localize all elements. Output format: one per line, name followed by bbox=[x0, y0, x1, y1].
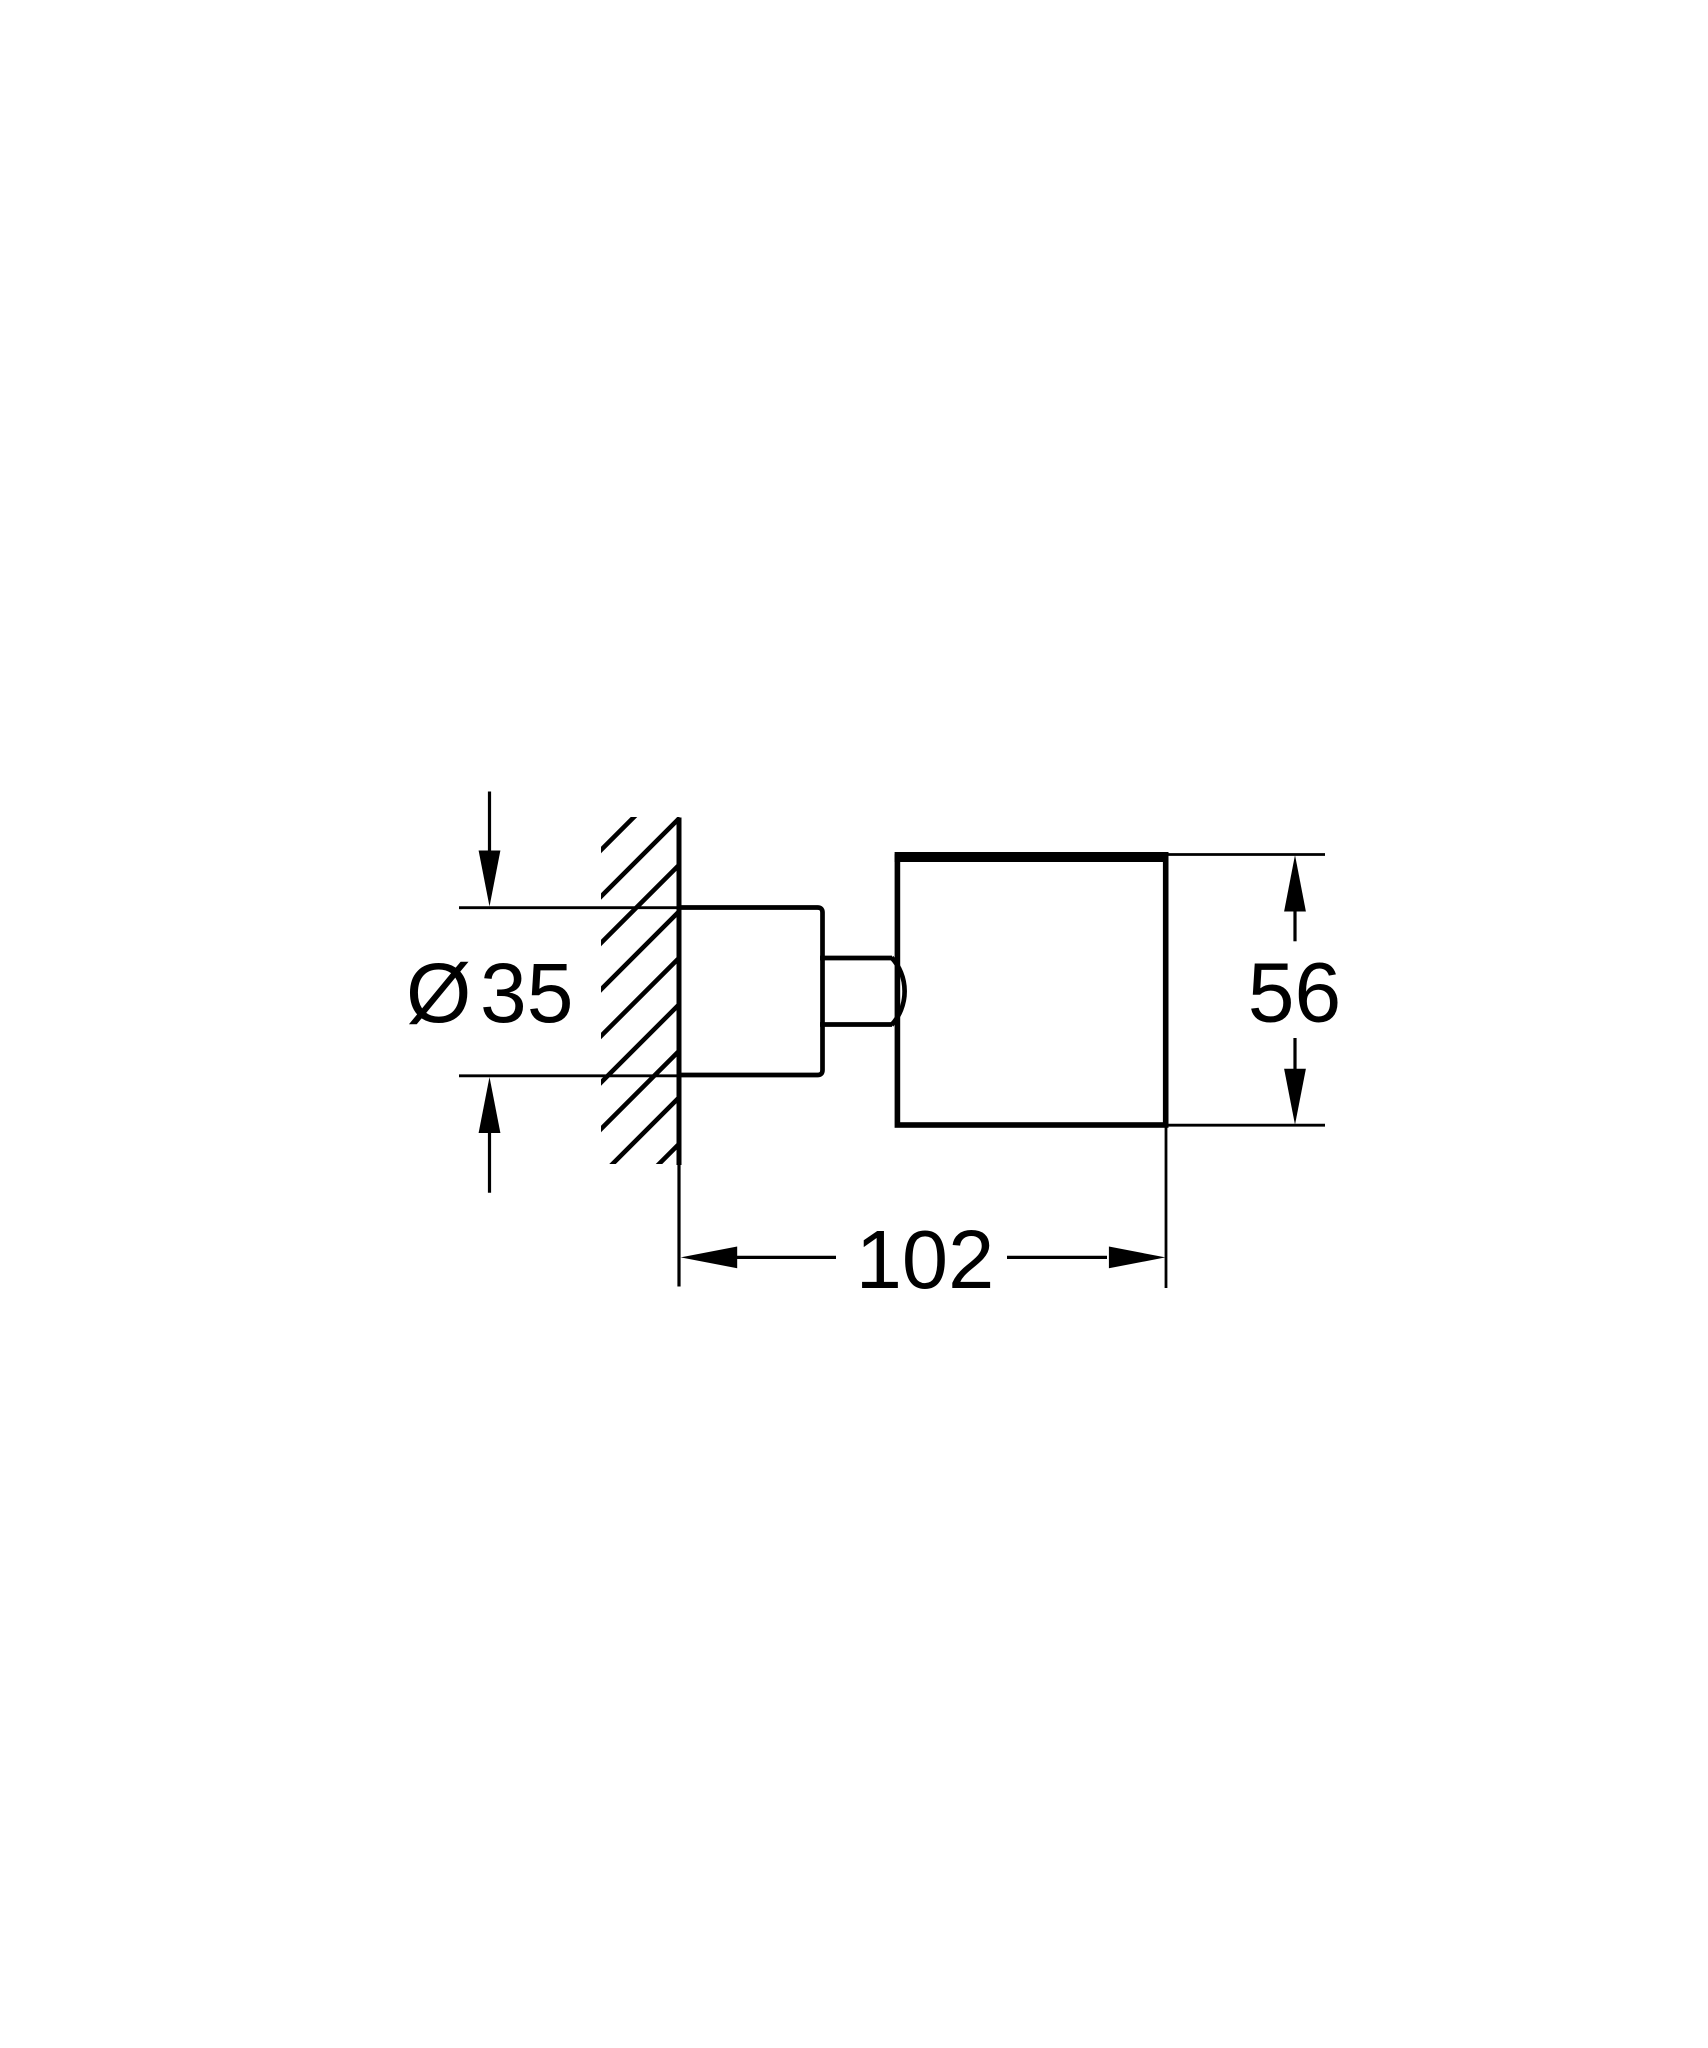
mount flange bbox=[679, 908, 823, 1076]
dimension Ø35 top extension line bbox=[459, 906, 682, 909]
svg-text:102: 102 bbox=[856, 1213, 994, 1306]
dimension Ø35 lower arrow (pointing up) bbox=[479, 1077, 501, 1193]
dimension 56 bottom extension line bbox=[1168, 1124, 1325, 1127]
dimension Ø35 bottom extension line bbox=[459, 1074, 682, 1077]
wall line bbox=[677, 818, 682, 1166]
cup holder body bbox=[897, 857, 1165, 1125]
svg-text:Ø: Ø bbox=[406, 946, 471, 1040]
neck bottom line bbox=[820, 1022, 892, 1027]
ball joint arc bbox=[892, 958, 905, 1026]
svg-text:56: 56 bbox=[1248, 946, 1341, 1040]
svg-text:35: 35 bbox=[480, 946, 573, 1040]
dimension 102 left arrow (pointing left) bbox=[681, 1247, 836, 1269]
dimension 56 top extension line bbox=[1168, 853, 1326, 856]
wall hatching bbox=[151, 700, 1123, 1300]
dimension Ø35 upper arrow (pointing down) bbox=[479, 792, 501, 907]
dimension 56 upper arrow (pointing up) bbox=[1284, 855, 1306, 941]
neck top line bbox=[820, 956, 892, 961]
dimension 102 left extension line bbox=[677, 1165, 680, 1287]
dimension 102 right extension line bbox=[1165, 1128, 1168, 1289]
dimension 102 right arrow (pointing right) bbox=[1007, 1247, 1165, 1269]
cup holder top rim (thick line) bbox=[895, 852, 1169, 862]
dimension 56 lower arrow (pointing down) bbox=[1284, 1038, 1306, 1125]
